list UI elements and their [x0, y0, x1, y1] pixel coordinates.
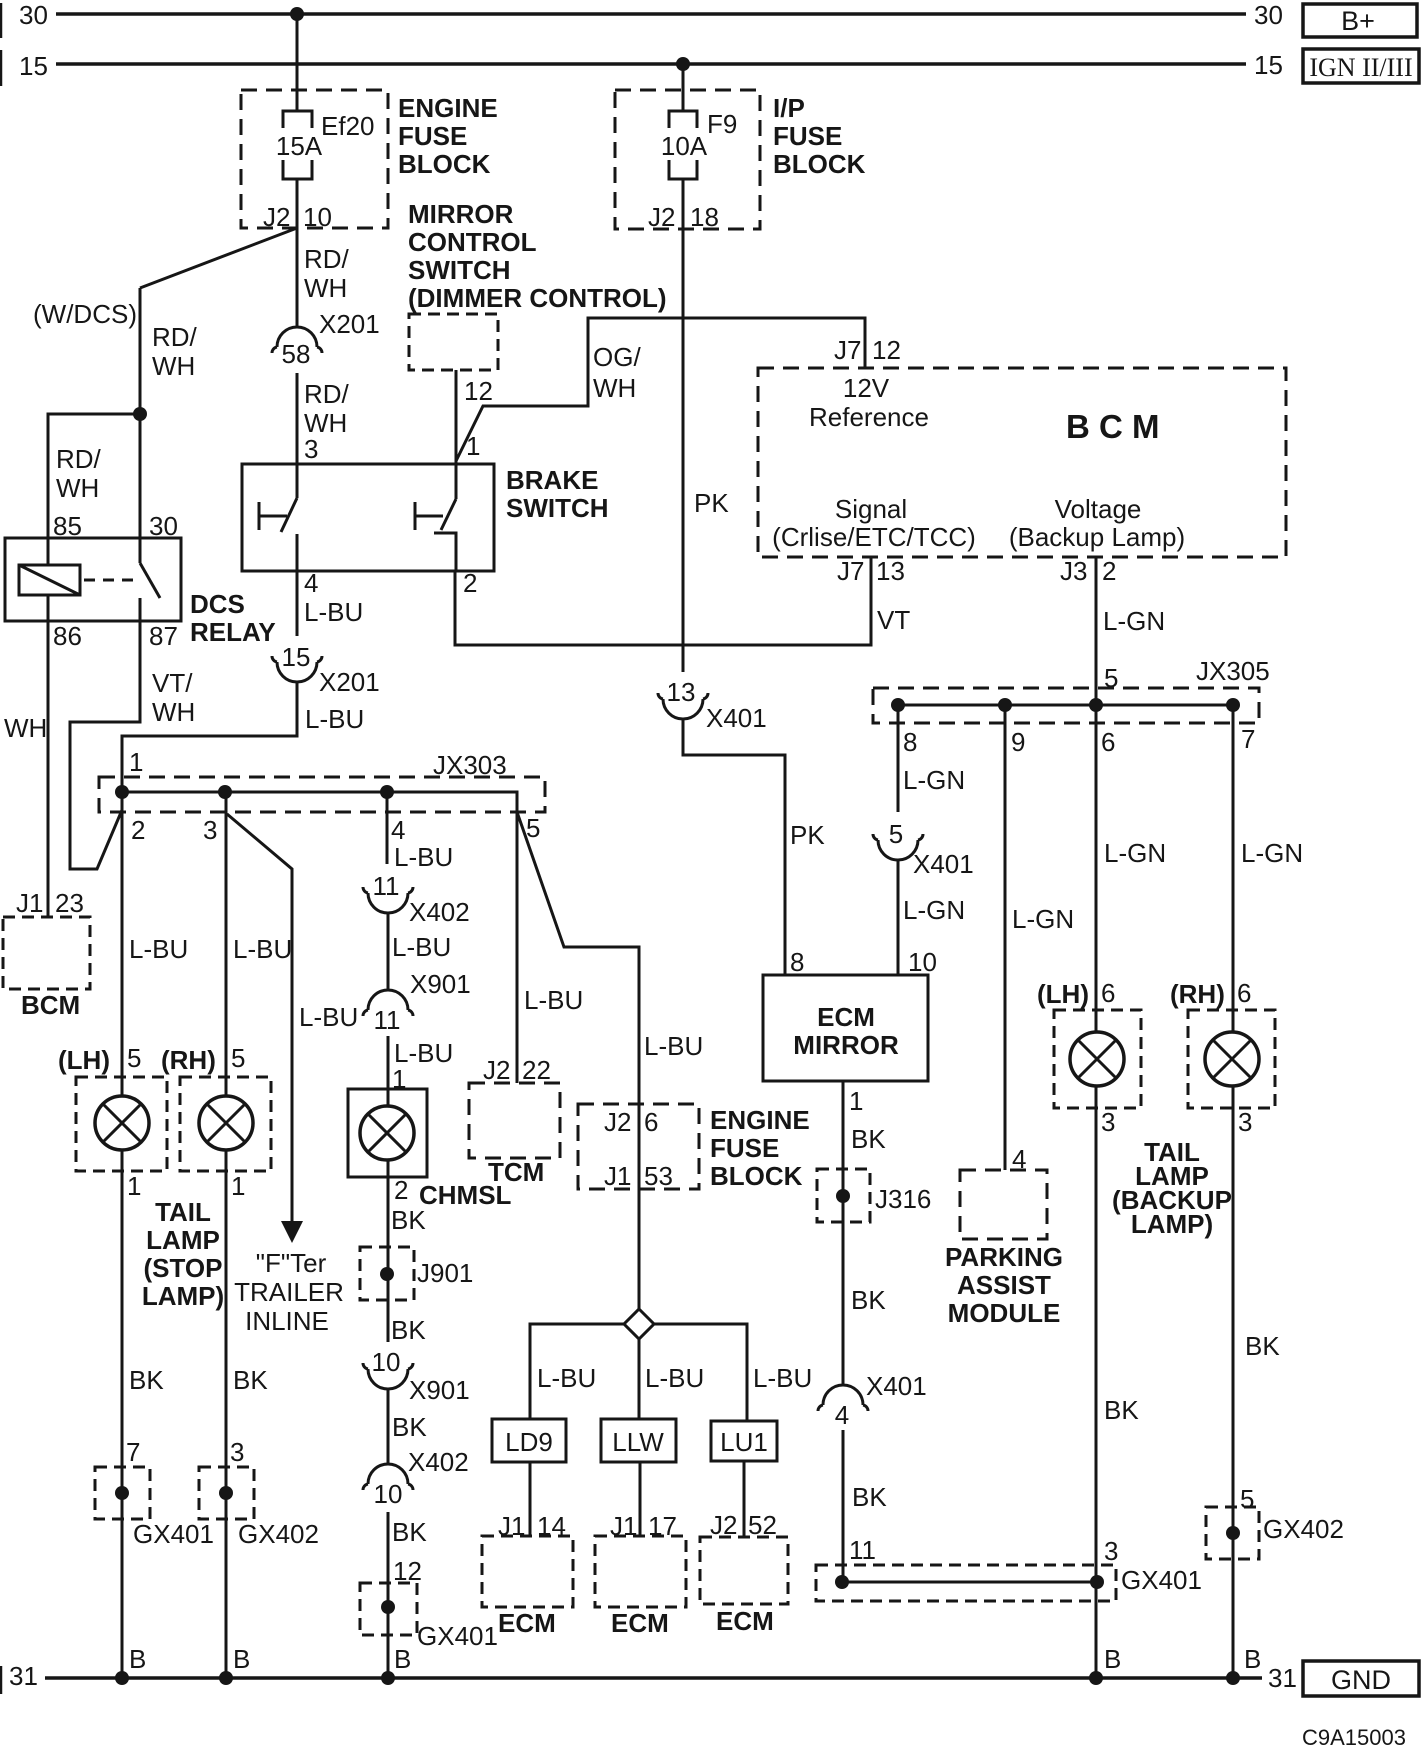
- parking assist module box: [960, 1170, 1047, 1239]
- svg-text:RD/: RD/: [56, 444, 102, 474]
- svg-text:Reference: Reference: [809, 402, 929, 432]
- svg-text:1: 1: [231, 1171, 245, 1201]
- svg-text:(LH): (LH): [1037, 979, 1089, 1009]
- svg-text:F9: F9: [707, 109, 737, 139]
- svg-text:BK: BK: [233, 1365, 268, 1395]
- junction JX303-1/2: [115, 785, 129, 799]
- svg-text:LU1: LU1: [720, 1427, 768, 1457]
- svg-text:J7: J7: [837, 556, 864, 586]
- svg-text:FUSE: FUSE: [710, 1133, 779, 1163]
- svg-text:MIRROR: MIRROR: [793, 1030, 899, 1060]
- backup lamp RH box: [1188, 1010, 1275, 1108]
- svg-text:15A: 15A: [276, 131, 323, 161]
- svg-text:31: 31: [1268, 1663, 1297, 1693]
- junction bus31 / backup lamp LH: [1089, 1671, 1103, 1685]
- svg-text:1: 1: [849, 1086, 863, 1116]
- svg-text:11: 11: [373, 871, 400, 901]
- svg-text:GX401: GX401: [417, 1621, 498, 1651]
- svg-text:BK: BK: [391, 1205, 426, 1235]
- wire JX303-5 (L-BU) to TCM J2-22: [516, 812, 519, 1083]
- junction bus15 / F9 feed: [676, 57, 690, 71]
- svg-text:3: 3: [1238, 1107, 1252, 1137]
- svg-text:11: 11: [374, 1005, 401, 1035]
- svg-text:10: 10: [374, 1479, 403, 1509]
- wire backup lamp LH pin 3 (BK) to ground bus: [1095, 1086, 1098, 1678]
- splice J316: [817, 1169, 870, 1222]
- svg-text:WH: WH: [56, 473, 99, 503]
- wire J2-10 down to X201-58: [296, 228, 299, 327]
- wire X402-11 to X901-11: [387, 913, 390, 990]
- ground splice GX401 (center): [360, 1583, 417, 1635]
- svg-text:X401: X401: [706, 703, 767, 733]
- svg-text:BK: BK: [391, 1315, 426, 1345]
- stop lamp RH bulb: [199, 1096, 253, 1150]
- wire JX303-3 branch to trailer feed: [227, 814, 292, 1222]
- wire branch (W/DCS) diagonal: [140, 228, 297, 288]
- svg-text:C9A15003: C9A15003: [1302, 1725, 1406, 1750]
- svg-text:LLW: LLW: [612, 1427, 664, 1457]
- wire LLW to ECM J1-17: [639, 1462, 642, 1536]
- brake switch right blade: [441, 499, 456, 530]
- svg-text:X201: X201: [319, 667, 380, 697]
- svg-text:X401: X401: [866, 1371, 927, 1401]
- svg-text:B: B: [1244, 1644, 1261, 1674]
- connector X901 pin 11 (dome): [368, 990, 408, 1010]
- svg-text:LD9: LD9: [505, 1427, 553, 1457]
- svg-text:GX402: GX402: [238, 1519, 319, 1549]
- wire X401-4 (BK) to GX401 splice: [842, 1430, 845, 1582]
- junction JX305-9: [998, 698, 1012, 712]
- svg-text:BK: BK: [851, 1124, 886, 1154]
- svg-text:ECM: ECM: [498, 1608, 556, 1638]
- svg-text:86: 86: [53, 621, 82, 651]
- ground splice GX401 (long): [816, 1565, 1116, 1601]
- svg-text:Signal: Signal: [835, 494, 907, 524]
- svg-text:B: B: [129, 1644, 146, 1674]
- svg-text:BLOCK: BLOCK: [398, 149, 491, 179]
- relay DCS box: [5, 538, 181, 621]
- wire relay 87 (VT/WH) to JX303 pin 2: [70, 621, 140, 869]
- ground splice GX402 (left): [199, 1467, 254, 1519]
- svg-text:B: B: [233, 1644, 250, 1674]
- svg-text:6: 6: [1101, 978, 1115, 1008]
- svg-text:J316: J316: [875, 1184, 931, 1214]
- svg-text:VT: VT: [877, 605, 910, 635]
- svg-text:BK: BK: [1104, 1395, 1139, 1425]
- brake switch left blade: [281, 498, 297, 532]
- svg-text:8: 8: [790, 947, 804, 977]
- svg-text:GX401: GX401: [133, 1519, 214, 1549]
- wire JX303-4 (L-BU) to X402-11: [386, 792, 389, 864]
- svg-text:L-BU: L-BU: [537, 1363, 596, 1393]
- svg-text:DCS: DCS: [190, 589, 245, 619]
- svg-text:J3: J3: [1060, 556, 1087, 586]
- svg-text:(LH): (LH): [58, 1045, 110, 1075]
- bus 30 (B+): [56, 12, 1246, 16]
- junction bus31 / stop lamp LH: [115, 1671, 129, 1685]
- wire JX303-5 branch (L-BU) to engine fuse block J2-6: [517, 812, 639, 1104]
- svg-text:WH: WH: [152, 697, 195, 727]
- GND box: [1303, 1661, 1419, 1696]
- svg-text:JX305: JX305: [1196, 656, 1270, 686]
- svg-text:12V: 12V: [843, 373, 890, 403]
- svg-text:12: 12: [872, 335, 901, 365]
- IGN II/III box: [1303, 49, 1419, 83]
- svg-text:3: 3: [230, 1437, 244, 1467]
- svg-text:B C M: B C M: [1066, 408, 1160, 445]
- svg-text:BRAKE: BRAKE: [506, 465, 598, 495]
- wire X201-58 to brake switch pin 3: [296, 373, 299, 498]
- junction bus30 / Ef20 feed: [290, 7, 304, 21]
- svg-text:10A: 10A: [661, 131, 708, 161]
- svg-text:3: 3: [304, 434, 318, 464]
- svg-text:15: 15: [19, 51, 48, 81]
- svg-text:Ef20: Ef20: [321, 111, 375, 141]
- ground splice GX402 (right): [1206, 1507, 1259, 1559]
- wire stop lamp RH pin 1 (BK) to ground bus: [225, 1150, 228, 1678]
- svg-text:4: 4: [391, 815, 405, 845]
- svg-text:BLOCK: BLOCK: [773, 149, 866, 179]
- wire brake pin 2 to BCM J7-13 (VT): [455, 557, 871, 645]
- junction above relay: [133, 407, 147, 421]
- svg-text:(W/DCS): (W/DCS): [33, 299, 137, 329]
- svg-text:BK: BK: [851, 1285, 886, 1315]
- svg-text:L-GN: L-GN: [1241, 838, 1303, 868]
- svg-text:1: 1: [466, 431, 480, 461]
- wire JX305-8 (L-GN) to X401-5: [897, 705, 900, 812]
- svg-text:(Crlise/ETC/TCC): (Crlise/ETC/TCC): [772, 522, 976, 552]
- svg-text:2: 2: [131, 815, 145, 845]
- svg-text:(RH): (RH): [161, 1045, 216, 1075]
- JX305 bus wire: [898, 704, 1233, 707]
- svg-text:SWITCH: SWITCH: [408, 255, 511, 285]
- wire brake pin 4 (L-BU) to X201-15: [296, 571, 299, 636]
- svg-text:L-GN: L-GN: [903, 765, 965, 795]
- svg-text:LAMP): LAMP): [1131, 1209, 1213, 1239]
- mirror control switch box: [409, 314, 498, 370]
- svg-text:6: 6: [644, 1107, 658, 1137]
- svg-text:ASSIST: ASSIST: [957, 1270, 1051, 1300]
- splice J901: [360, 1247, 414, 1300]
- brake switch right contact: [414, 502, 417, 530]
- svg-text:10: 10: [908, 947, 937, 977]
- svg-text:INLINE: INLINE: [245, 1306, 329, 1336]
- backup lamp LH box: [1054, 1010, 1141, 1108]
- brake switch left contact: [258, 502, 261, 530]
- B+ box: [1303, 4, 1417, 37]
- wire to relay pin 30: [139, 414, 142, 563]
- svg-text:58: 58: [282, 339, 311, 369]
- wire diamond to LLW: [638, 1339, 641, 1419]
- wire X401-5 (L-GN) to ECM MIRROR pin 10: [897, 860, 900, 975]
- wire JX305-6 (L-GN) to backup lamp LH: [1095, 705, 1098, 1032]
- svg-text:RELAY: RELAY: [190, 617, 276, 647]
- I/P FUSE BLOCK box: [615, 90, 760, 229]
- svg-text:18: 18: [690, 202, 719, 232]
- svg-text:TAIL: TAIL: [155, 1197, 211, 1227]
- svg-text:PARKING: PARKING: [945, 1242, 1063, 1272]
- ENGINE FUSE BLOCK (top) box: [241, 90, 388, 228]
- svg-text:FUSE: FUSE: [773, 121, 842, 151]
- svg-text:GND: GND: [1331, 1665, 1391, 1695]
- svg-text:L-BU: L-BU: [299, 1002, 358, 1032]
- svg-text:TCM: TCM: [488, 1157, 544, 1187]
- svg-text:12: 12: [464, 376, 493, 406]
- svg-text:B+: B+: [1341, 6, 1375, 36]
- svg-text:RD/: RD/: [304, 244, 350, 274]
- svg-text:BK: BK: [1245, 1331, 1280, 1361]
- connector X401 pin 4 (dome): [823, 1385, 863, 1405]
- svg-text:TRAILER: TRAILER: [234, 1277, 344, 1307]
- wire X901-11 (L-BU) to CHMSL pin 1: [387, 1036, 390, 1106]
- svg-text:GX401: GX401: [1121, 1565, 1202, 1595]
- svg-text:LAMP: LAMP: [146, 1225, 220, 1255]
- backup lamp RH bulb: [1205, 1032, 1259, 1086]
- svg-text:B: B: [1104, 1644, 1121, 1674]
- svg-text:IGN II/III: IGN II/III: [1309, 53, 1412, 82]
- svg-text:10: 10: [303, 202, 332, 232]
- ECM box (LLW): [595, 1536, 686, 1607]
- LD9 box: [492, 1419, 566, 1462]
- svg-text:J7: J7: [834, 335, 861, 365]
- svg-text:J2: J2: [483, 1055, 510, 1085]
- svg-text:L-BU: L-BU: [233, 934, 292, 964]
- trailer feed arrow: [281, 1221, 303, 1243]
- svg-text:L-BU: L-BU: [394, 842, 453, 872]
- svg-text:WH: WH: [304, 273, 347, 303]
- relay actuation dashed link: [84, 579, 133, 582]
- svg-text:X901: X901: [410, 969, 471, 999]
- svg-text:11: 11: [849, 1535, 876, 1565]
- LLW box: [601, 1419, 676, 1462]
- svg-text:PK: PK: [790, 820, 825, 850]
- wire stop lamp LH pin 1 (BK) to ground bus: [121, 1150, 124, 1678]
- brake switch pin 4 stub: [296, 534, 299, 571]
- svg-text:SWITCH: SWITCH: [506, 493, 609, 523]
- svg-text:6: 6: [1101, 727, 1115, 757]
- svg-text:6: 6: [1237, 978, 1251, 1008]
- stop lamp LH box: [76, 1077, 167, 1171]
- svg-text:L-BU: L-BU: [524, 985, 583, 1015]
- svg-text:1: 1: [129, 747, 143, 777]
- svg-text:X402: X402: [408, 1447, 469, 1477]
- wire JX305-9 (L-GN) to parking assist module: [1004, 705, 1007, 1170]
- svg-text:MIRROR: MIRROR: [408, 199, 514, 229]
- svg-text:L-BU: L-BU: [645, 1363, 704, 1393]
- svg-text:BCM: BCM: [21, 990, 80, 1020]
- svg-text:WH: WH: [4, 713, 47, 743]
- svg-text:RD/: RD/: [152, 322, 198, 352]
- stop lamp LH bulb: [95, 1096, 149, 1150]
- svg-text:3: 3: [1104, 1536, 1118, 1566]
- relay switch blade: [140, 563, 160, 598]
- svg-text:J2: J2: [648, 202, 675, 232]
- svg-text:Voltage: Voltage: [1055, 494, 1142, 524]
- svg-text:1: 1: [127, 1171, 141, 1201]
- svg-text:J2: J2: [604, 1107, 631, 1137]
- junction JX303-3: [218, 785, 232, 799]
- connector X402 pin 10 (dome): [368, 1464, 408, 1484]
- wire node to BCM J7-12: [456, 318, 865, 461]
- wire CHMSL pin 2 (BK) down: [387, 1160, 390, 1342]
- bus 15 (IGN): [56, 62, 1246, 66]
- svg-text:BLOCK: BLOCK: [710, 1161, 803, 1191]
- svg-text:WH: WH: [152, 351, 195, 381]
- svg-text:"F"Ter: "F"Ter: [256, 1248, 327, 1278]
- svg-text:BK: BK: [852, 1482, 887, 1512]
- svg-text:L-GN: L-GN: [1104, 838, 1166, 868]
- svg-text:ECM: ECM: [716, 1606, 774, 1636]
- ground splice GX401 (left): [95, 1467, 150, 1519]
- wire LU1 to ECM J2-52: [743, 1461, 746, 1537]
- wire diamond to LD9: [530, 1324, 624, 1419]
- svg-text:FUSE: FUSE: [398, 121, 467, 151]
- svg-text:3: 3: [1101, 1107, 1115, 1137]
- svg-text:X201: X201: [319, 309, 380, 339]
- svg-text:9: 9: [1011, 727, 1025, 757]
- svg-text:7: 7: [126, 1437, 140, 1467]
- CHMSL bulb: [360, 1106, 414, 1160]
- ECM MIRROR pin 1 wire (BK): [842, 1081, 845, 1385]
- svg-text:5: 5: [889, 819, 903, 849]
- svg-text:5: 5: [127, 1043, 141, 1073]
- wire bus30 to fuse Ef20: [296, 14, 299, 111]
- wire backup lamp RH pin 3 (BK) to ground bus: [1232, 1086, 1235, 1678]
- svg-text:L-GN: L-GN: [1103, 606, 1165, 636]
- wire JX303-3 (L-BU) to stop lamp RH: [225, 792, 228, 1096]
- svg-text:WH: WH: [593, 373, 636, 403]
- svg-text:10: 10: [372, 1347, 401, 1377]
- svg-text:L-BU: L-BU: [392, 932, 451, 962]
- svg-text:L-BU: L-BU: [644, 1031, 703, 1061]
- svg-text:15: 15: [1254, 50, 1283, 80]
- wire X901-10 to X402-10: [387, 1389, 390, 1464]
- junction JX303-4: [380, 785, 394, 799]
- svg-text:22: 22: [522, 1055, 551, 1085]
- svg-text:L-BU: L-BU: [129, 934, 188, 964]
- svg-text:4: 4: [304, 568, 318, 598]
- svg-text:ENGINE: ENGINE: [398, 93, 498, 123]
- junction bus31 / backup lamp RH: [1226, 1671, 1240, 1685]
- svg-text:(DIMMER CONTROL): (DIMMER CONTROL): [408, 283, 667, 313]
- wire diamond to LU1: [654, 1324, 747, 1421]
- diamond splice: [624, 1309, 654, 1339]
- BCM (lower-left) box: [3, 917, 90, 989]
- svg-text:(Backup Lamp): (Backup Lamp): [1009, 522, 1185, 552]
- wire JX305-7 (L-GN) to backup lamp RH: [1232, 705, 1235, 1032]
- CHMSL lamp box: [348, 1089, 427, 1177]
- svg-text:OG/: OG/: [593, 342, 641, 372]
- svg-text:30: 30: [19, 0, 48, 30]
- svg-text:13: 13: [667, 677, 696, 707]
- wire through fuse block to diamond splice: [638, 1104, 641, 1311]
- svg-text:8: 8: [903, 727, 917, 757]
- svg-text:BK: BK: [392, 1517, 427, 1547]
- junction JX305-7: [1226, 698, 1240, 712]
- brake switch pin 1 stub: [455, 463, 458, 499]
- svg-text:CONTROL: CONTROL: [408, 227, 537, 257]
- TCM box: [469, 1083, 560, 1158]
- svg-text:PK: PK: [694, 488, 729, 518]
- wire BCM J3-2 (L-GN) to JX305: [1095, 557, 1098, 705]
- svg-text:X402: X402: [409, 897, 470, 927]
- svg-text:30: 30: [1254, 0, 1283, 30]
- engine fuse block (lower) box: [578, 1104, 699, 1189]
- svg-text:3: 3: [203, 815, 217, 845]
- backup lamp LH bulb: [1070, 1032, 1124, 1086]
- junction JX305-8: [891, 698, 905, 712]
- svg-text:VT/: VT/: [152, 668, 193, 698]
- wire X402-10 (BK) to ground bus: [387, 1512, 390, 1678]
- svg-text:(RH): (RH): [1170, 979, 1225, 1009]
- LU1 box: [711, 1421, 777, 1461]
- svg-text:2: 2: [463, 568, 477, 598]
- wire F9 J2-18 down (PK) to X401-13: [682, 229, 685, 672]
- svg-text:J1: J1: [16, 888, 43, 918]
- page edge marks top-left: [0, 3, 2, 38]
- junction JX305-6: [1089, 698, 1103, 712]
- relay coil: [19, 565, 80, 595]
- fuse Ef20: [283, 111, 312, 128]
- wire to relay pin 85: [48, 414, 140, 565]
- svg-text:ENGINE: ENGINE: [710, 1105, 810, 1135]
- svg-text:J2: J2: [263, 202, 290, 232]
- brake switch box: [242, 464, 494, 571]
- wire X401-13 (PK) to ECM MIRROR pin 8: [683, 719, 785, 975]
- svg-text:I/P: I/P: [773, 93, 805, 123]
- svg-text:L-GN: L-GN: [903, 895, 965, 925]
- svg-text:ECM: ECM: [817, 1002, 875, 1032]
- fuse F9: [669, 111, 697, 128]
- svg-text:L-BU: L-BU: [753, 1363, 812, 1393]
- ground bus 31: [45, 1676, 1262, 1680]
- svg-text:31: 31: [9, 1661, 38, 1691]
- svg-text:2: 2: [394, 1175, 408, 1205]
- stop lamp RH box: [180, 1077, 271, 1171]
- ECM box (LD9): [482, 1536, 573, 1607]
- svg-text:RD/: RD/: [304, 379, 350, 409]
- ECM box (LU1): [700, 1537, 788, 1604]
- svg-text:2: 2: [1102, 556, 1116, 586]
- svg-text:5: 5: [231, 1043, 245, 1073]
- svg-text:23: 23: [55, 888, 84, 918]
- svg-text:L-BU: L-BU: [304, 597, 363, 627]
- svg-text:7: 7: [1241, 724, 1255, 754]
- svg-text:BK: BK: [392, 1412, 427, 1442]
- connector X201 pin 58 (dome): [277, 327, 317, 347]
- svg-text:X901: X901: [409, 1375, 470, 1405]
- JX303 bus wire: [122, 792, 517, 812]
- ECM MIRROR box: [763, 975, 928, 1081]
- svg-text:ECM: ECM: [611, 1608, 669, 1638]
- svg-text:B: B: [394, 1644, 411, 1674]
- svg-text:BK: BK: [129, 1365, 164, 1395]
- svg-text:GX402: GX402: [1263, 1514, 1344, 1544]
- wire LD9 to ECM J1-14: [529, 1462, 532, 1536]
- svg-text:13: 13: [876, 556, 905, 586]
- svg-text:J901: J901: [417, 1258, 473, 1288]
- svg-text:L-BU: L-BU: [305, 704, 364, 734]
- svg-text:MODULE: MODULE: [948, 1298, 1061, 1328]
- svg-text:X401: X401: [913, 849, 974, 879]
- wire mirror switch pin 12 down to brake pin 1 node: [455, 370, 458, 463]
- wire JX303-2 (L-BU) to stop lamp LH: [121, 792, 124, 1096]
- junction bus31 / CHMSL: [381, 1671, 395, 1685]
- BCM main box: [758, 368, 1286, 557]
- svg-text:L-GN: L-GN: [1012, 904, 1074, 934]
- wire relay 86 (WH) down to BCM J1-23: [47, 595, 50, 917]
- svg-text:(STOP: (STOP: [144, 1253, 223, 1283]
